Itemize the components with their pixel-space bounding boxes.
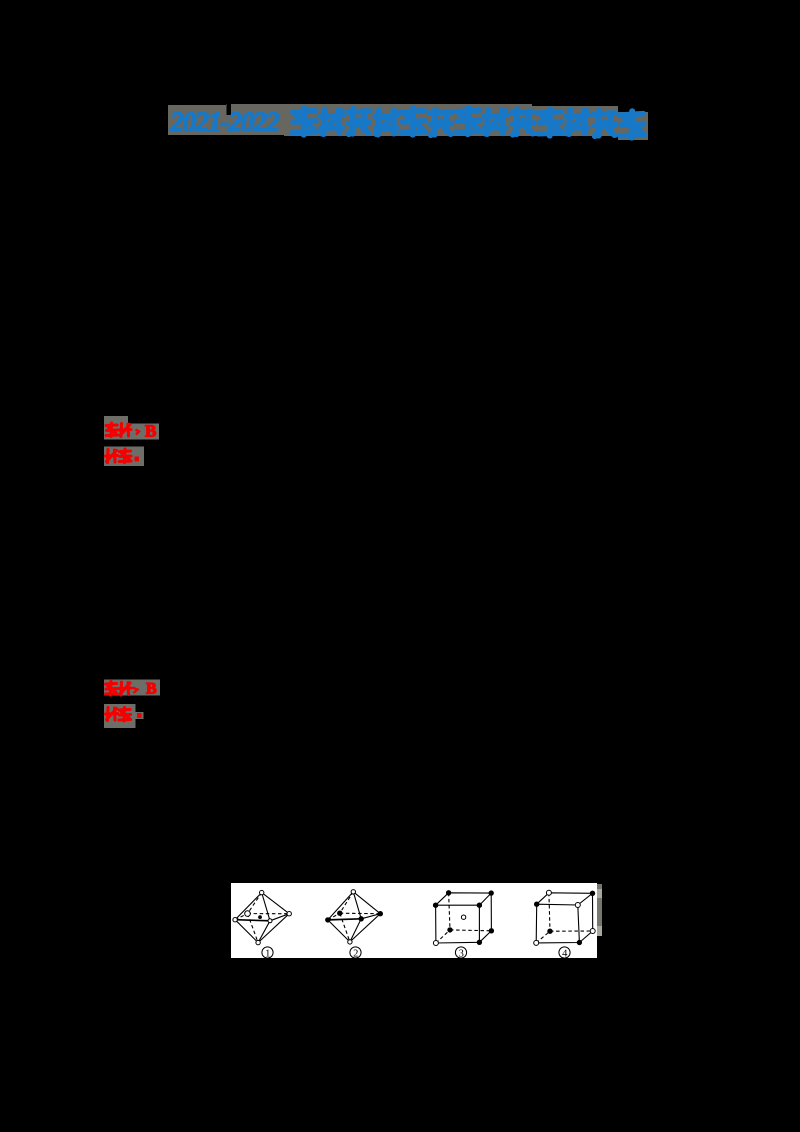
title CJK glyph blobs : 学年高二化学重难点专题突破	[292, 108, 644, 138]
cube 4 vertices	[534, 890, 596, 945]
title highlight band	[168, 104, 648, 140]
svg-text:1: 1	[265, 948, 270, 959]
cube 3	[436, 893, 492, 943]
label 4	[559, 947, 570, 959]
answer block A line 2 highlight	[104, 447, 144, 467]
octahedron 1 vertices	[233, 890, 291, 944]
octahedron 2 vertices	[326, 890, 383, 945]
cube 3 vertices	[433, 891, 493, 946]
label 3	[455, 947, 466, 959]
answer B text 解析：	[106, 708, 142, 722]
answer A text 答案，B	[106, 422, 156, 441]
octahedron 1	[235, 893, 289, 943]
svg-text:B: B	[145, 422, 156, 441]
answer block A line 1 highlight	[104, 416, 159, 440]
answer block B line 1 highlight	[104, 680, 160, 696]
svg-text:2021-2022: 2021-2022	[169, 107, 280, 138]
diagrams white strip	[231, 883, 597, 958]
label 1	[262, 947, 273, 959]
svg-text:2: 2	[353, 948, 358, 959]
cube 4	[536, 893, 593, 943]
octahedron 2	[328, 892, 381, 942]
svg-text:4: 4	[562, 948, 568, 959]
answer block B line 2 highlight	[104, 704, 136, 728]
answer A text 解析：	[106, 449, 139, 463]
label 2	[350, 947, 361, 959]
answer B text 答案，B	[106, 681, 158, 698]
svg-text:3: 3	[459, 948, 464, 959]
svg-text:B: B	[146, 681, 157, 698]
right sliver	[597, 884, 602, 936]
